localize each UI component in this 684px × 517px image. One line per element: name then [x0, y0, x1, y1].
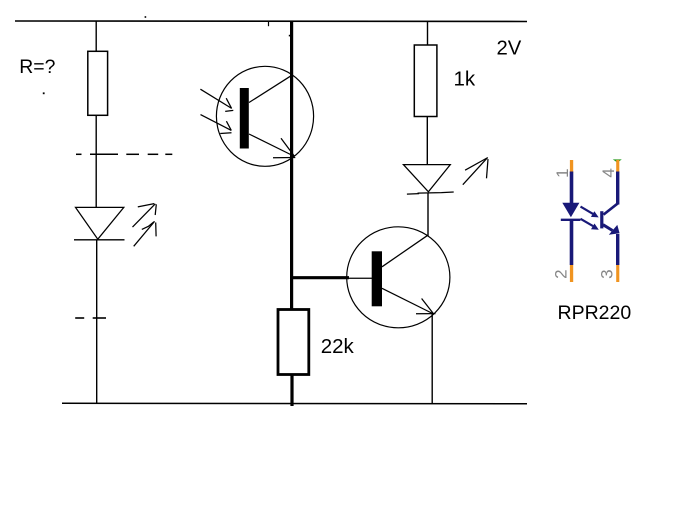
U1 base bar: [600, 211, 603, 228]
resistor R2 body: [414, 45, 437, 117]
U1 emitter arrow head: [609, 225, 620, 235]
LED D1 emission arrow lower: [134, 221, 156, 246]
U1 emitter diagonal: [603, 225, 613, 231]
wire from rail to R1: [95, 21, 97, 52]
transistor Q2 collector line: [382, 235, 428, 266]
wire from Q2 emitter to bottom rail: [431, 314, 433, 404]
wire top supply rail: [15, 20, 527, 23]
LED D1 cathode bar: [74, 239, 125, 241]
phototransistor Q1 base bar: [240, 88, 249, 149]
pin 1 lead: [570, 160, 573, 173]
optocoupler U1 RPR220: [552, 159, 632, 324]
dash tick crossing wire: [93, 317, 106, 319]
U1 LED triangle: [562, 203, 579, 218]
LED D2 cathode bar: [407, 193, 419, 196]
U1 emitter wire vertical: [616, 234, 619, 265]
svg-text:2V: 2V: [497, 37, 522, 59]
U1 anode wire: [570, 172, 574, 204]
phototransistor Q1 emitter arrow barb: [281, 138, 294, 156]
U1 collector diagonal: [604, 203, 618, 214]
U1 coupling arrow lower: [581, 219, 599, 230]
wire bottom rail: [62, 402, 527, 405]
wire from D2 to Q2 collector: [427, 194, 429, 237]
node speck dot near thick wire: [289, 35, 291, 37]
svg-text:2: 2: [552, 269, 571, 278]
U1 cathode wire: [570, 220, 574, 265]
pin 2 lead: [570, 265, 573, 282]
transistor Q2 emitter arrow base stroke: [416, 313, 436, 315]
phototransistor Q1 collector line: [249, 75, 292, 102]
transistor Q2 base bar: [372, 251, 382, 306]
wire from rail to R2: [427, 21, 429, 46]
phototransistor Q1 emitter line: [249, 134, 295, 157]
wire from R3 to bottom rail: [290, 375, 293, 407]
svg-text:R=?: R=?: [19, 56, 55, 78]
svg-text:4: 4: [599, 168, 618, 177]
LED D2 emission arrow: [463, 157, 488, 184]
svg-text:1k: 1k: [454, 68, 476, 91]
pin 4 lead: [616, 160, 619, 173]
wire small stub artifact below rail: [268, 22, 270, 27]
svg-text:RPR220: RPR220: [558, 302, 632, 324]
dash mark pair on lower left wire: [75, 317, 84, 319]
node speck dot under R label: [43, 92, 45, 94]
resistor R3 body 22k: [278, 310, 309, 375]
svg-text:22k: 22k: [321, 335, 355, 358]
pin 4 green mark: [613, 159, 622, 162]
wire from R2 to D2: [426, 117, 428, 165]
node speck dot above rail: [145, 16, 147, 18]
svg-text:3: 3: [597, 269, 616, 278]
wire from D1 to bottom rail: [96, 240, 98, 404]
U1 collector wire vertical: [616, 172, 619, 205]
wire thin base wire continuation: [349, 277, 373, 279]
wire from R1 to D1: [95, 115, 97, 208]
phototransistor Q1 body circle: [216, 66, 313, 166]
dashed optical axis line: [76, 153, 172, 155]
wire thick center collector/emitter line: [290, 21, 293, 310]
U1 coupling arrow upper: [581, 207, 599, 218]
phototransistor Q1 incident light arrow lower: [201, 115, 232, 134]
wire thick base wire to Q2: [290, 276, 349, 279]
transistor Q2 emitter line: [382, 288, 434, 314]
pin 3 lead: [616, 265, 619, 282]
resistor R1 body: [88, 51, 108, 115]
LED D1 emission arrow upper: [133, 204, 157, 228]
LED D2 triangle: [403, 165, 450, 192]
phototransistor Q1 emitter arrow base stroke: [273, 157, 295, 159]
U1 LED cathode bar: [561, 219, 581, 221]
phototransistor Q1 incident light arrow upper: [200, 89, 233, 111]
svg-text:1: 1: [553, 168, 572, 177]
LED D1 triangle: [76, 207, 124, 239]
LED D2 cathode bar second stroke: [418, 192, 454, 193]
transistor Q2 emitter arrow barb: [422, 299, 434, 314]
transistor Q2 body circle: [347, 227, 450, 328]
